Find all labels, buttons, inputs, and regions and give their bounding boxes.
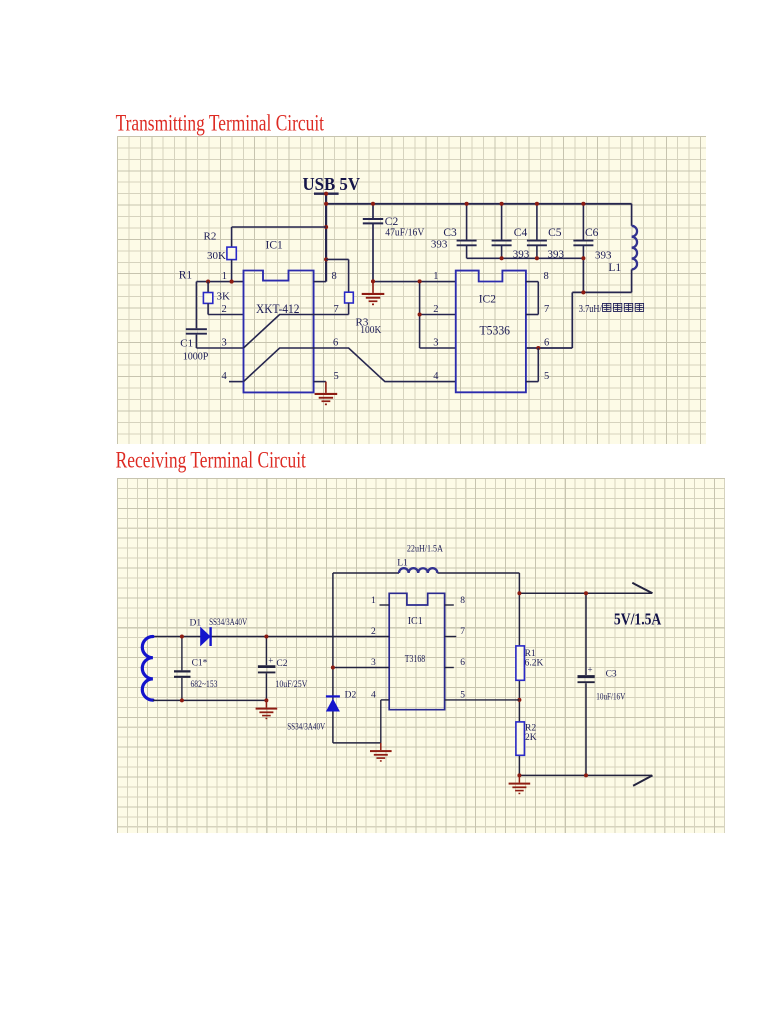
svg-text:3: 3 bbox=[371, 658, 376, 668]
svg-text:3: 3 bbox=[222, 338, 227, 349]
svg-text:D1: D1 bbox=[190, 618, 202, 628]
svg-text:8: 8 bbox=[544, 271, 549, 282]
svg-text:+: + bbox=[268, 656, 273, 666]
svg-text:393: 393 bbox=[595, 249, 612, 261]
svg-text:3: 3 bbox=[433, 338, 438, 349]
svg-text:R1: R1 bbox=[179, 270, 193, 282]
svg-text:IC2: IC2 bbox=[479, 294, 497, 306]
svg-text:Receiving Terminal Circuit: Receiving Terminal Circuit bbox=[116, 448, 307, 473]
svg-text:2K: 2K bbox=[525, 733, 537, 743]
svg-text:4: 4 bbox=[371, 690, 376, 700]
svg-text:7: 7 bbox=[460, 627, 465, 637]
svg-text:L1: L1 bbox=[397, 559, 408, 569]
svg-text:6: 6 bbox=[333, 338, 338, 349]
svg-text:682~153: 682~153 bbox=[191, 679, 218, 689]
svg-text:10uF/16V: 10uF/16V bbox=[596, 692, 625, 702]
svg-text:SS34/3A40V: SS34/3A40V bbox=[287, 722, 325, 732]
svg-text:L1: L1 bbox=[608, 262, 621, 274]
svg-text:22uH/1.5A: 22uH/1.5A bbox=[407, 545, 443, 555]
svg-text:4: 4 bbox=[433, 371, 439, 382]
svg-text:C3: C3 bbox=[443, 227, 457, 239]
svg-text:C3: C3 bbox=[606, 670, 617, 680]
svg-text:1: 1 bbox=[371, 596, 376, 606]
svg-text:USB 5V: USB 5V bbox=[303, 174, 361, 194]
svg-text:IC1: IC1 bbox=[408, 616, 423, 627]
svg-text:6: 6 bbox=[460, 658, 465, 668]
svg-text:7: 7 bbox=[334, 304, 339, 315]
svg-text:8: 8 bbox=[332, 271, 337, 282]
svg-text:C5: C5 bbox=[548, 227, 562, 239]
svg-text:393: 393 bbox=[548, 249, 565, 261]
svg-text:D2: D2 bbox=[345, 691, 357, 701]
svg-text:10uF/25V: 10uF/25V bbox=[275, 679, 307, 689]
svg-text:1: 1 bbox=[222, 271, 227, 282]
svg-text:T3168: T3168 bbox=[405, 654, 425, 665]
svg-text:30K: 30K bbox=[207, 250, 226, 262]
svg-text:3K: 3K bbox=[217, 291, 231, 303]
svg-text:C2: C2 bbox=[276, 659, 287, 669]
svg-text:R2: R2 bbox=[204, 231, 217, 243]
svg-text:C6: C6 bbox=[585, 227, 599, 239]
svg-text:3.7uH/: 3.7uH/ bbox=[579, 304, 602, 315]
svg-text:XKT-412: XKT-412 bbox=[256, 302, 300, 316]
svg-text:C1: C1 bbox=[180, 337, 193, 349]
svg-text:393: 393 bbox=[431, 239, 448, 251]
svg-text:5: 5 bbox=[460, 690, 465, 700]
svg-text:T5336: T5336 bbox=[480, 324, 511, 338]
svg-text:8: 8 bbox=[460, 596, 465, 606]
svg-text:R2: R2 bbox=[525, 724, 536, 734]
svg-text:1: 1 bbox=[433, 271, 438, 282]
svg-text:C4: C4 bbox=[514, 227, 528, 239]
svg-text:R1: R1 bbox=[525, 649, 536, 659]
svg-text:1000P: 1000P bbox=[183, 351, 209, 363]
svg-text:+: + bbox=[588, 665, 593, 675]
svg-text:IC1: IC1 bbox=[266, 240, 284, 252]
svg-text:Transmitting Terminal Circuit: Transmitting Terminal Circuit bbox=[116, 111, 325, 136]
svg-text:2: 2 bbox=[433, 304, 438, 315]
svg-text:5: 5 bbox=[334, 371, 339, 382]
svg-text:47uF/16V: 47uF/16V bbox=[385, 227, 424, 238]
svg-text:393: 393 bbox=[513, 249, 530, 261]
svg-text:SS34/3A40V: SS34/3A40V bbox=[209, 617, 247, 627]
svg-text:C1*: C1* bbox=[192, 659, 208, 669]
svg-text:2: 2 bbox=[371, 627, 376, 637]
svg-text:5: 5 bbox=[544, 371, 549, 382]
svg-text:C2: C2 bbox=[385, 216, 399, 228]
svg-text:2: 2 bbox=[222, 304, 227, 315]
svg-text:4: 4 bbox=[222, 371, 228, 382]
svg-text:7: 7 bbox=[544, 304, 549, 315]
svg-text:6: 6 bbox=[544, 338, 549, 349]
svg-text:5V/1.5A: 5V/1.5A bbox=[614, 609, 662, 628]
svg-text:100K: 100K bbox=[360, 324, 381, 336]
svg-text:6.2K: 6.2K bbox=[525, 659, 544, 669]
